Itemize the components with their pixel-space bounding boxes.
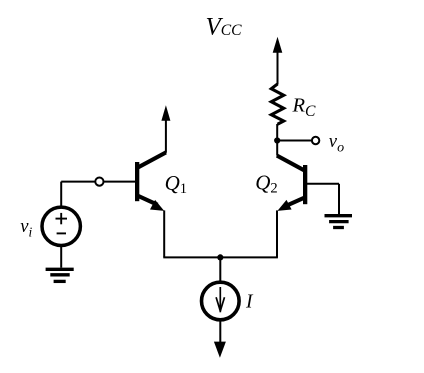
svg-text:I: I bbox=[245, 291, 254, 312]
svg-text:VCC: VCC bbox=[206, 14, 243, 41]
svg-text:vi: vi bbox=[20, 216, 32, 239]
svg-text:vo: vo bbox=[329, 131, 344, 156]
svg-text:RC: RC bbox=[292, 95, 317, 120]
svg-text:Q2: Q2 bbox=[255, 171, 277, 197]
svg-text:Q1: Q1 bbox=[165, 171, 187, 197]
